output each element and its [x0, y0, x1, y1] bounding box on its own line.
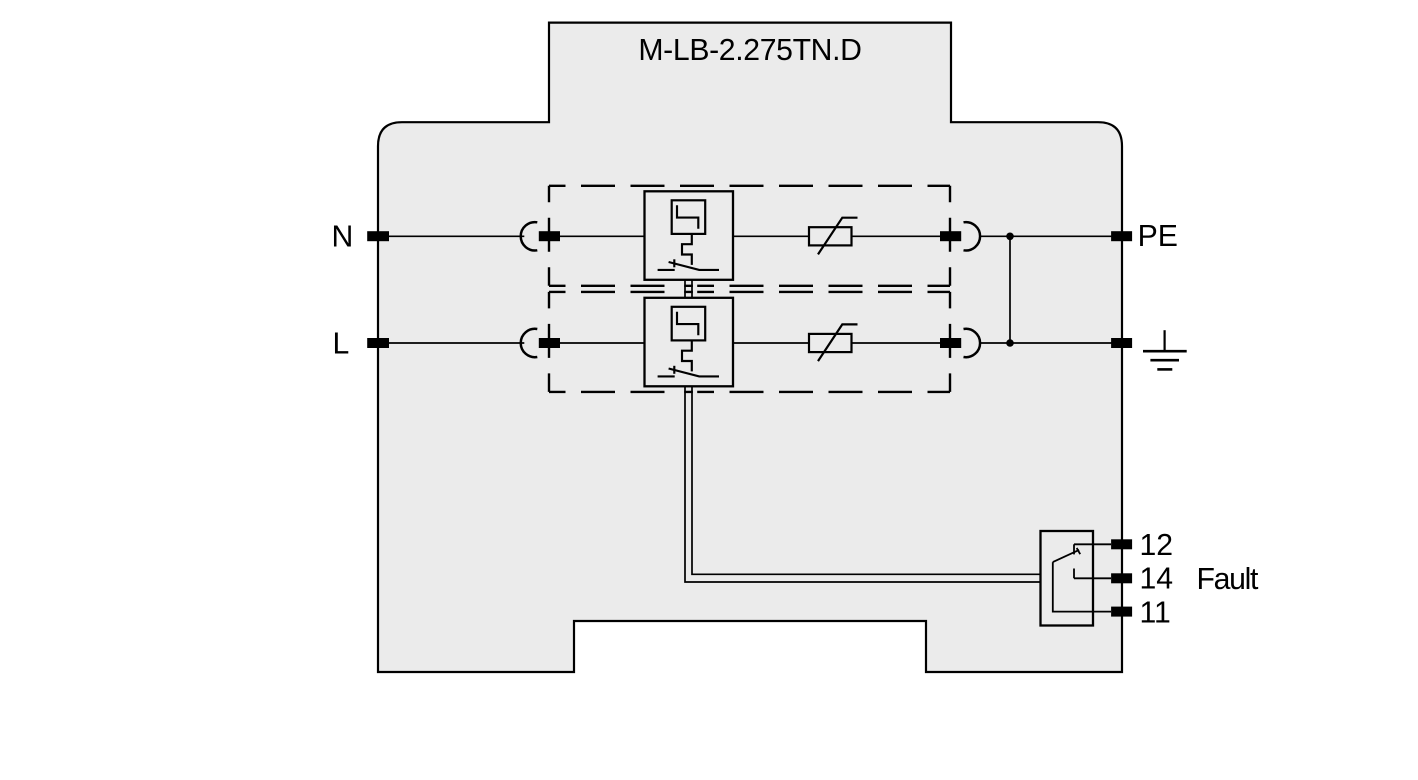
svg-text:PE: PE — [1138, 220, 1178, 253]
svg-text:11: 11 — [1140, 597, 1171, 630]
svg-text:Fault: Fault — [1197, 563, 1260, 596]
svg-text:M-LB-2.275TN.D: M-LB-2.275TN.D — [638, 34, 861, 67]
svg-text:12: 12 — [1140, 529, 1174, 562]
svg-text:14: 14 — [1140, 563, 1174, 596]
svg-text:N: N — [332, 220, 354, 253]
svg-text:L: L — [333, 328, 350, 361]
